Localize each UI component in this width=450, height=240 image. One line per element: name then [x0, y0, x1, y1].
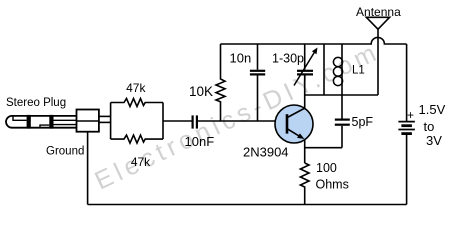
- wire collector node horizontal: [305, 94, 378, 96]
- antenna triangle: [366, 17, 389, 29]
- wire plug to 47k junction bottom: [99, 121, 111, 123]
- svg-text:to: to: [424, 119, 435, 134]
- svg-text:3V: 3V: [426, 133, 442, 148]
- transistor Q1 2N3904: [275, 105, 313, 143]
- svg-text:47k: 47k: [131, 155, 151, 169]
- svg-text:Ohms: Ohms: [316, 178, 349, 192]
- wire 47k loop left vertical: [110, 103, 112, 140]
- wire battery positive lead: [406, 44, 408, 121]
- svg-text:47k: 47k: [126, 81, 146, 95]
- wire ground lead from plug body: [87, 132, 89, 205]
- wire tank left branch: [323, 44, 325, 95]
- stereo plug barrel outline: [6, 116, 77, 128]
- wire plug to 47k junction top: [99, 115, 111, 117]
- svg-text:2N3904: 2N3904: [243, 145, 289, 160]
- wire bottom ground rail: [88, 204, 407, 206]
- stereo plug middle notch: [40, 125, 49, 128]
- wire base line left of 10nF: [163, 120, 192, 122]
- wire emitter lead: [304, 140, 306, 163]
- svg-text:Stereo Plug: Stereo Plug: [6, 97, 66, 109]
- wire battery negative lead: [406, 134, 408, 205]
- stereo plug tip step: [13, 116, 27, 120]
- stereo plug conductor lines: [54, 119, 77, 121]
- wire top supply rail with hop over antenna lead: [221, 37, 407, 44]
- svg-text:10nF: 10nF: [185, 134, 215, 149]
- battery B1: [398, 121, 415, 123]
- arrowhead of 1-30p trimmer: [312, 48, 318, 55]
- svg-text:100: 100: [316, 161, 337, 175]
- wire base line right of 10nF: [198, 120, 287, 122]
- svg-text:+: +: [407, 108, 414, 122]
- plug body box: [77, 110, 99, 132]
- arrowhead of transistor emitter: [297, 133, 304, 139]
- resistor 47k bottom: [111, 135, 163, 143]
- inductor L1: [341, 44, 343, 95]
- svg-text:10K: 10K: [189, 84, 213, 99]
- svg-text:L1: L1: [352, 65, 365, 77]
- svg-text:10n: 10n: [230, 51, 252, 66]
- svg-text:1-30p: 1-30p: [272, 52, 304, 66]
- wire 47k loop right vertical: [162, 103, 164, 140]
- variable capacitor 1-30p: [304, 44, 306, 70]
- svg-text:Ground: Ground: [46, 146, 84, 158]
- resistor 47k top: [111, 99, 163, 107]
- resistor 10K: [216, 44, 225, 121]
- svg-text:1.5V: 1.5V: [419, 102, 446, 117]
- svg-text:5pF: 5pF: [352, 115, 374, 129]
- stereo plug insulator band 1: [27, 115, 31, 129]
- capacitor 10n: [257, 44, 259, 70]
- capacitor 10nF: [192, 115, 194, 128]
- wire antenna lead: [377, 29, 379, 95]
- resistor 100 Ohms: [300, 163, 309, 205]
- stereo plug insulator band 2: [49, 115, 53, 129]
- svg-text:Antenna: Antenna: [356, 5, 401, 19]
- capacitor 5pF: [341, 95, 343, 119]
